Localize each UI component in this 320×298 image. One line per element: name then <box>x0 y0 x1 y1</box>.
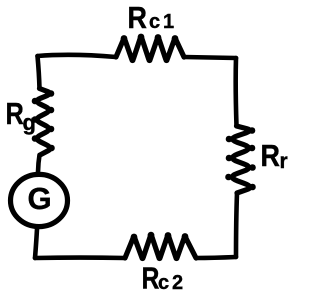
resistor Rc2 <box>125 236 196 258</box>
label Rc2 <box>142 261 184 295</box>
wire bottom-left horizontal segment <box>35 255 125 260</box>
svg-text:g: g <box>23 110 36 135</box>
galvanometer U1 circle <box>11 174 68 226</box>
resistor Rg tip bulbs <box>32 90 55 151</box>
wire left side upper <box>38 56 40 89</box>
label Rc1 <box>128 1 175 35</box>
svg-text:R: R <box>128 1 147 35</box>
resistor Rr <box>232 126 250 193</box>
svg-text:1: 1 <box>163 11 174 33</box>
wire left side between Rg and galvanometer <box>38 155 40 172</box>
resistor Rc1 <box>116 38 184 60</box>
wire top-right horizontal segment <box>184 57 236 58</box>
svg-text:R: R <box>6 97 24 132</box>
wire right side lower <box>236 193 237 257</box>
wire top-left horizontal segment <box>38 55 117 57</box>
wire bottom-right horizontal segment <box>196 257 236 258</box>
resistor Rc2 tip bulbs <box>131 232 189 261</box>
svg-text:c: c <box>158 272 169 294</box>
wire left side below galvanometer <box>35 229 37 258</box>
resistor Rg <box>37 89 50 156</box>
svg-text:G: G <box>27 181 51 216</box>
label Rg <box>6 97 36 135</box>
svg-text:r: r <box>280 150 288 173</box>
resistor Rr tip bulbs <box>225 127 256 190</box>
svg-text:2: 2 <box>172 272 183 294</box>
svg-text:c: c <box>149 11 160 33</box>
resistor Rc1 tip bulbs <box>121 34 179 64</box>
label Rr <box>261 139 288 173</box>
svg-text:R: R <box>142 261 160 295</box>
svg-text:R: R <box>261 139 280 173</box>
wire right side upper <box>233 58 238 126</box>
